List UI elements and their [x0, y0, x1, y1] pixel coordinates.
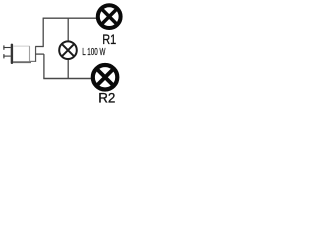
svg-text:L 100 W: L 100 W [82, 46, 105, 58]
wire bottom horizontal [43, 78, 91, 80]
plug X1 : prong bottom [3, 55, 10, 57]
svg-text:R1: R1 [102, 31, 116, 47]
wire mid stub [35, 53, 44, 55]
plug X1 : body right edge [29, 46, 31, 61]
svg-text:R2: R2 [98, 90, 115, 106]
plug X1 : body top edge [13, 45, 30, 47]
lamp R2 ring [93, 65, 118, 90]
wire lamp drop [67, 18, 69, 41]
lamp R2 cross [96, 69, 113, 86]
plug X1 : terminal bracket [35, 47, 37, 62]
lamp R1 ring [98, 5, 121, 28]
wire top horizontal [43, 17, 98, 19]
wire lamp bottom drop [67, 59, 69, 78]
background [0, 0, 127, 112]
lamp L ring [59, 41, 77, 59]
lamp L cross [62, 44, 74, 56]
plug X1 : prong tick top [3, 45, 5, 49]
wire top riser [42, 18, 44, 47]
plug X1 : body bottom edge [13, 61, 31, 63]
plug X1 : prong top [3, 47, 10, 49]
wire bottom riser [43, 54, 45, 78]
lamp R1 cross [101, 9, 117, 25]
wire top stub [35, 46, 43, 48]
plug X1 : cable boot link [30, 60, 36, 62]
plug X1 : face bar [11, 44, 13, 64]
plug X1 : prong tick bottom [3, 54, 5, 58]
